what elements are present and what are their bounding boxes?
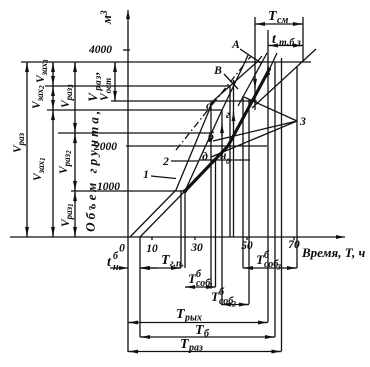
svg-text:1000: 1000 (97, 181, 120, 193)
projection vertical x297 (T_sob3 right) (296, 66, 298, 268)
T_sob1 dim (185, 286, 216, 288)
projection vertical x211 (point a) (210, 101, 212, 287)
small up-arrow x268 (267, 66, 269, 78)
svg-text:50: 50 (241, 240, 253, 252)
T_sob2 dim (221, 304, 249, 306)
svg-text:рых: рых (184, 313, 202, 324)
projection vertical x249 (248, 100, 250, 304)
svg-text:2: 2 (162, 156, 169, 168)
svg-text:г.п.: г.п. (170, 259, 184, 270)
T_raz dim (128, 351, 282, 353)
leader 1 (151, 176, 176, 179)
svg-text:Vзах2: Vзах2 (31, 85, 46, 109)
projection vertical x268 (t_tbz left / T_ryh right) (267, 30, 269, 322)
projection vertical x243 (242, 96, 244, 268)
level line y101 (111, 100, 257, 102)
svg-text:м3: м3 (99, 10, 114, 25)
level line 2000 (y146) (126, 145, 267, 147)
level line y86 (45, 85, 230, 87)
curve 2 (140, 55, 248, 237)
t_n dim (outside arrows) (110, 267, 128, 269)
svg-text:Объем грунта,: Объем грунта, (83, 107, 102, 232)
svg-text:Vзах1: Vзах1 (32, 157, 47, 181)
svg-text:70: 70 (288, 239, 300, 251)
projection vertical x303 (T_sm right) (302, 17, 304, 62)
svg-text:Vраз: Vраз (12, 132, 26, 153)
x-axis (10, 236, 345, 238)
svg-text:3: 3 (299, 116, 306, 128)
level line y110 (47, 109, 222, 111)
svg-text:Vраз1: Vраз1 (60, 203, 75, 227)
svg-text:раз: раз (188, 343, 203, 354)
dim column V_zah x53 (52, 62, 54, 237)
T_sm dim (255, 23, 303, 25)
small up-arrow x222 (221, 124, 223, 136)
svg-text:Vраз2: Vраз2 (58, 150, 73, 174)
svg-text:30: 30 (190, 242, 203, 254)
t_tbz dim (268, 45, 303, 47)
projection vertical x275 (T_b right) (274, 62, 276, 337)
svg-text:3: 3 (276, 263, 281, 272)
svg-text:2: 2 (231, 300, 236, 309)
projection vertical x230 (229, 86, 231, 237)
leader 2 (171, 160, 199, 162)
svg-text:г: г (226, 109, 230, 121)
dim column V_raz_i x75 (74, 62, 76, 237)
junction dot at 1000 level (183, 189, 187, 193)
thick line 3 (185, 68, 270, 191)
vertical x140 (thick-line start projection) (139, 237, 141, 337)
level line y160 (199, 159, 250, 161)
svg-text:н: н (113, 262, 119, 273)
svg-text:1: 1 (143, 169, 149, 181)
T_ryh dim (128, 322, 268, 324)
svg-text:б: б (204, 329, 210, 340)
dim column V_raz x27 (26, 62, 28, 237)
projection vertical x222 (point g) (221, 110, 223, 304)
svg-text:В: В (213, 65, 222, 77)
axis tick t=50 (246, 237, 248, 240)
projection vertical x181 (curve1 bend) (180, 190, 182, 268)
dim V_ost x115 (114, 62, 116, 101)
svg-text:t: t (272, 32, 277, 47)
diagonal D2 (238, 53, 267, 106)
level line V_raz (y62) (21, 61, 311, 63)
svg-text:а: а (206, 100, 212, 112)
projection vertical x281.5 (T_raz right) (281, 58, 283, 351)
level line 1000 (y191) (71, 190, 186, 192)
leader B (224, 74, 238, 89)
svg-text:А: А (231, 39, 240, 51)
dash-dot line (176, 56, 251, 150)
projection vertical x215.5 (215, 158, 217, 287)
node b dot (208, 138, 212, 142)
svg-text:4000: 4000 (88, 44, 112, 56)
diagonal D1 (252, 49, 316, 108)
small down-arrow x255 (254, 76, 256, 88)
svg-text:см: см (277, 15, 288, 26)
projection vertical x185 (junction) (184, 191, 186, 268)
svg-text:т.б.з: т.б.з (279, 38, 301, 49)
svg-text:д: д (202, 151, 208, 163)
svg-text:10: 10 (146, 243, 158, 255)
leader A (240, 49, 261, 63)
T_gp dim (140, 267, 181, 269)
curve 1 (130, 56, 262, 237)
svg-text:б: б (113, 251, 119, 262)
small up-arrow x233.5 (233, 112, 235, 124)
svg-text:2000: 2000 (93, 141, 117, 153)
T_sob3 dim (243, 267, 297, 269)
axis tick t=30 (194, 237, 196, 240)
T_b dim (140, 336, 275, 338)
leaders 3 (213, 121, 297, 141)
svg-text:0: 0 (226, 157, 230, 166)
svg-text:0: 0 (119, 243, 125, 255)
axis tick t=70 (293, 237, 295, 240)
y-axis (127, 10, 129, 237)
projection vertical x233.5 (233, 80, 235, 237)
projection vertical x255 (T_sm left) (254, 17, 256, 110)
tick 4000 (123, 49, 130, 51)
svg-text:Время, Т, ч: Время, Т, ч (301, 245, 366, 260)
svg-text:Vраз3: Vраз3 (60, 84, 75, 108)
level line y133 (58, 132, 211, 134)
y-axis extension below (127, 237, 129, 352)
axis tick t=10 (151, 237, 153, 240)
